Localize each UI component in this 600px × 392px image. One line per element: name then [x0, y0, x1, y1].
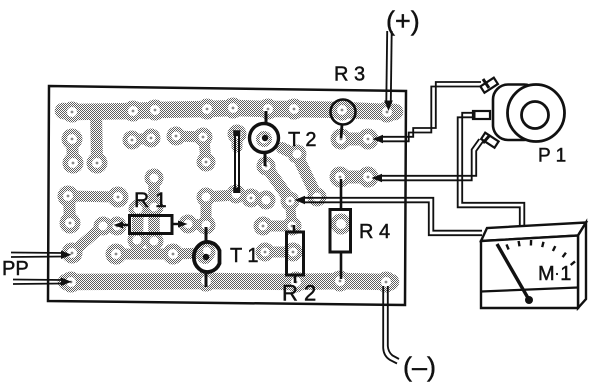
P1 terminal tips [483, 79, 489, 88]
wire trace: dogbone near top middle-left [132, 138, 151, 140]
node (+) supply wire [386, 31, 391, 102]
arrow R1 right lead [178, 221, 188, 228]
transistor T1 [194, 227, 220, 287]
wire trace: link from node row down to R2 dogbone [290, 202, 292, 225]
meter M1 [481, 223, 586, 309]
potentiometer P1 [473, 78, 565, 148]
wire trace: second diagonal from T2 [282, 148, 317, 197]
wire jumper link [233, 130, 240, 193]
wire trace: short bottom bar under R1 [116, 253, 206, 254]
wire trace: dogbone right of T1 upper [263, 221, 292, 232]
transistor T2 [250, 111, 279, 166]
wire trace: riser V2 behind R1 label [148, 178, 160, 251]
P1 terminal top [480, 78, 498, 93]
svg-text:R 3: R 3 [334, 64, 365, 86]
wire trace: T junction under jumper [188, 195, 234, 225]
node (-) supply wire [383, 286, 399, 364]
wire trace: dogbone to R4 pad [340, 171, 368, 184]
svg-text:PP: PP [2, 258, 29, 280]
resistor R2 [287, 225, 304, 283]
M1 right face [578, 223, 586, 309]
P1 shaft [522, 102, 549, 129]
svg-text:R 4: R 4 [359, 221, 390, 243]
M1 scale ticks [507, 240, 576, 265]
resistor R1 [119, 216, 181, 234]
arrow wire B [372, 174, 383, 183]
svg-text:R 2: R 2 [282, 281, 316, 306]
P1 terminal bottom [481, 133, 499, 148]
arrow (+) wire [384, 101, 393, 112]
M1 bottom strip line [481, 288, 578, 292]
board outline [48, 86, 406, 305]
svg-text:(–): (–) [403, 352, 436, 382]
pad holes [67, 107, 389, 284]
wire trace: diagonal to R1 left pad [72, 226, 117, 253]
svg-text:R 1: R 1 [134, 189, 167, 212]
wire trace: dogbone middle [176, 136, 203, 137]
svg-text:T 2: T 2 [288, 129, 317, 151]
wire trace: jumper top pads [232, 134, 243, 147]
arrow wire D [295, 196, 306, 205]
resistor R3 [331, 100, 356, 139]
T1 marking dot [203, 254, 209, 260]
M1 pivot dot [525, 296, 533, 304]
arrow R1 left lead [114, 222, 124, 229]
wire trace: bottom ground bar [66, 281, 391, 282]
wire trace: riser V1 behind R1 [137, 209, 138, 251]
M1 front face [481, 236, 578, 309]
svg-text:P 1: P 1 [538, 146, 566, 167]
P1 main body [508, 85, 565, 142]
M1 top face [481, 223, 586, 242]
wire trace: dogbone at node row [251, 198, 266, 200]
wire A: P1 top terminal to board [381, 82, 481, 141]
T2 marking dot [262, 135, 268, 141]
copper traces (stippled) [63, 108, 395, 282]
wire trace: top supply bar [63, 108, 395, 112]
wire trace: dogbone to R3 pad [341, 133, 368, 146]
wire trace: vertical dogbone middle [204, 140, 206, 161]
wire trace: stub from top bar down [96, 111, 97, 162]
svg-text:(+): (+) [386, 6, 420, 36]
wire trace: left vertical dogbone 2 [69, 198, 70, 223]
arrow PP wire 1 [61, 251, 72, 260]
node PP input wires [11, 253, 64, 285]
wire trace: T2 emitter diagonal [266, 166, 290, 200]
resistor R4 [330, 179, 351, 279]
trace blobs at pads [58, 98, 398, 293]
arrow wire A [373, 135, 384, 144]
solder pads (white holes) [63, 103, 392, 287]
wire trace: mid-left horizontal bar [68, 196, 118, 197]
wire trace: dogbone right of T1 lower [265, 247, 293, 258]
wire B: P1 bottom terminal to board [380, 139, 483, 180]
svg-text:T 1: T 1 [230, 245, 259, 267]
arrow PP wire 2 [61, 278, 72, 287]
wire C: P1 middle terminal to meter M1 [458, 113, 525, 231]
P1 rear body [493, 85, 539, 141]
P1 terminal middle [473, 111, 490, 119]
wire D: meter M1 to board node [303, 198, 482, 235]
wire trace: left vertical dogbone [72, 139, 73, 163]
M1 needle [497, 244, 528, 298]
svg-text:M 1: M 1 [538, 263, 571, 285]
